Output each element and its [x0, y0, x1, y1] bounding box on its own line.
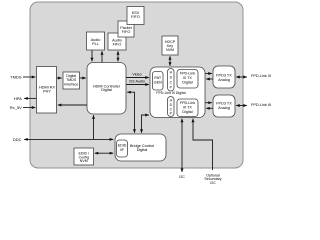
svg-text:FIFO: FIFO	[122, 30, 131, 34]
svg-text:FPD-Link III Digital: FPD-Link III Digital	[156, 91, 185, 95]
svg-text:FIFO: FIFO	[131, 15, 140, 19]
svg-text:I2C: I2C	[210, 181, 216, 185]
svg-text:NVM: NVM	[80, 159, 88, 163]
svg-text:PLL: PLL	[92, 42, 99, 46]
svg-text:Digital: Digital	[101, 88, 112, 92]
svg-text:III TX: III TX	[183, 76, 192, 80]
svg-text:I2C: I2C	[179, 175, 185, 179]
svg-text:FPD-Link III: FPD-Link III	[251, 74, 271, 78]
svg-text:GEN: GEN	[154, 80, 162, 84]
svg-text:DDC: DDC	[13, 137, 22, 142]
svg-text:Analog: Analog	[218, 106, 230, 110]
svg-text:TMDS: TMDS	[66, 78, 77, 82]
svg-text:Digital: Digital	[182, 110, 192, 114]
svg-text:NVM: NVM	[166, 48, 174, 52]
svg-text:Rx_5V: Rx_5V	[10, 105, 22, 110]
svg-text:Digital: Digital	[137, 148, 148, 152]
svg-text:Video: Video	[132, 73, 141, 77]
svg-text:FPD-Link III: FPD-Link III	[251, 103, 271, 107]
svg-text:I2S Audio: I2S Audio	[129, 80, 145, 84]
svg-text:PHY: PHY	[43, 90, 51, 94]
svg-text:III TX: III TX	[183, 106, 192, 110]
svg-text:Interface: Interface	[64, 82, 78, 86]
svg-text:Digital: Digital	[182, 81, 192, 85]
svg-text:FPD-Link: FPD-Link	[180, 101, 196, 105]
svg-text:TMDS: TMDS	[10, 74, 22, 79]
svg-text:Analog: Analog	[218, 78, 230, 82]
svg-text:FIFO: FIFO	[113, 43, 122, 47]
svg-text:FPD-Link: FPD-Link	[180, 72, 196, 76]
svg-text:HPA: HPA	[14, 96, 22, 101]
